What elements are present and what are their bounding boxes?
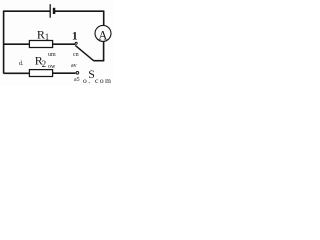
resistor R2 box (29, 70, 52, 77)
svg-text:1: 1 (45, 32, 50, 42)
svg-text:um: um (48, 52, 56, 58)
svg-text:a5: a5 (74, 77, 80, 83)
switch blade from contact 1 to pivot (75, 45, 93, 60)
svg-text:av: av (71, 63, 77, 69)
wire R1 row right (53, 43, 75, 45)
svg-text:cn: cn (73, 52, 79, 58)
svg-text:A: A (98, 28, 107, 42)
wire right rail upper (103, 11, 105, 26)
wire top-left segment (4, 10, 50, 12)
wire pivot to ammeter drop (93, 60, 104, 62)
wire left rail (3, 11, 5, 74)
svg-text:ow: ow (48, 64, 56, 70)
svg-text:1: 1 (72, 30, 78, 43)
ammeter A circle (95, 25, 111, 41)
svg-text:d.: d. (19, 61, 24, 67)
background (0, 0, 113, 86)
svg-text:o. com: o. com (83, 76, 112, 85)
wire R1 row left (4, 43, 30, 45)
battery cell: short thick plate (53, 8, 56, 14)
wire top-right segment (55, 10, 104, 12)
contact ring 2 (switch S hinge) (76, 72, 79, 75)
wire right rail lower (ammeter to pivot row) (103, 41, 105, 60)
wire R2 row right (53, 72, 76, 74)
contact ring 1 (75, 42, 77, 44)
resistor R1 box (29, 41, 52, 48)
wire R2 row left (4, 72, 30, 74)
battery cell: long plate (49, 4, 51, 18)
svg-text:2: 2 (42, 59, 47, 69)
